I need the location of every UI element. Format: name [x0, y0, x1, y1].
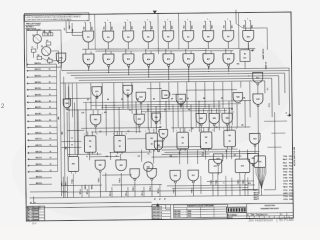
- svg-text:TP1 H: TP1 H: [126, 190, 128, 196]
- IC E73: [235, 159, 250, 173]
- wire: [130, 51, 132, 54]
- svg-text:TELETYPE: TELETYPE: [264, 205, 275, 207]
- wire: [153, 150, 155, 164]
- gate E5 row1: [143, 31, 154, 42]
- wire: [96, 94, 98, 98]
- wire: [190, 51, 192, 54]
- gate E71: [188, 170, 199, 181]
- svg-text:BAC08 L: BAC08 L: [35, 112, 41, 115]
- ladder spine 2: [60, 70, 61, 196]
- svg-text:E25: E25: [179, 99, 182, 101]
- svg-text:P1J: P1J: [289, 159, 292, 161]
- ladder arrow: [27, 120, 29, 122]
- wire: [208, 104, 210, 130]
- svg-text:P7: P7: [228, 66, 230, 68]
- wire: [162, 140, 164, 142]
- svg-text:R2: R2: [89, 141, 91, 143]
- wire: [278, 76, 280, 105]
- bus wire low 1: [62, 190, 254, 192]
- wire drop: [66, 177, 68, 198]
- long top wire: [94, 14, 96, 49]
- wire: [244, 20, 245, 22]
- svg-text:TT02: TT02: [283, 156, 287, 158]
- bus wire 2: [67, 71, 289, 73]
- rev table col: [32, 206, 34, 221]
- gate E7 row1: [183, 31, 194, 42]
- wire: [231, 126, 233, 130]
- wire: [147, 42, 149, 49]
- wire drop: [134, 181, 136, 196]
- svg-text:R2: R2: [181, 137, 183, 139]
- svg-text:P0: P0: [88, 67, 90, 69]
- gate E55: [248, 153, 259, 163]
- svg-text:B61: B61: [212, 25, 214, 28]
- wire: [85, 102, 87, 135]
- ladder arrow: [26, 82, 28, 84]
- wire: [159, 82, 161, 124]
- wire: [89, 21, 90, 23]
- svg-text:B51: B51: [192, 26, 194, 29]
- svg-text:P6: P6: [208, 66, 210, 68]
- svg-text:R3: R3: [46, 40, 48, 42]
- wire: [266, 28, 268, 50]
- svg-text:R2: R2: [118, 140, 120, 142]
- junction: [77, 130, 78, 131]
- gate E52: [154, 141, 163, 150]
- arrow right: [251, 49, 254, 51]
- bus wire 1: [63, 68, 289, 71]
- wire: [81, 126, 161, 129]
- gate E15 row2: [163, 54, 174, 65]
- bus wire 6: [61, 81, 265, 83]
- wire: [184, 128, 186, 132]
- ladder arrow: [27, 171, 29, 173]
- wire: [228, 101, 230, 130]
- bus wire low 2: [30, 195, 293, 198]
- svg-text:SB0: SB0: [58, 117, 60, 120]
- wire: [172, 187, 248, 190]
- bus stub right2: [242, 188, 258, 190]
- wire: [164, 22, 166, 31]
- wire drop: [111, 187, 113, 197]
- wire: [185, 49, 187, 54]
- junction: [198, 101, 199, 102]
- svg-text:G2: G2: [106, 156, 108, 158]
- wire drop: [244, 175, 246, 196]
- gate E46: [152, 113, 161, 122]
- svg-text:TRANSMITTER ASSY: TRANSMITTER ASSY: [260, 207, 279, 210]
- svg-text:E73: E73: [241, 166, 244, 168]
- wire: [224, 21, 226, 31]
- junction: [218, 100, 219, 101]
- wire: [210, 21, 212, 31]
- wire: [189, 20, 190, 22]
- svg-text:BAC03 L: BAC03 L: [35, 81, 41, 84]
- osc out wire: [60, 43, 62, 53]
- resistor R6: [47, 59, 52, 62]
- svg-text:P6J: P6J: [289, 175, 292, 177]
- svg-text:T3: T3: [148, 154, 150, 156]
- transistor Q1: [33, 35, 41, 43]
- wire drop: [72, 174, 74, 198]
- wire: [239, 150, 241, 159]
- gate E44: [209, 113, 220, 123]
- wire: [83, 101, 251, 103]
- wire: [230, 21, 232, 31]
- svg-text:E42: E42: [138, 118, 141, 121]
- flip-flop F6: [224, 130, 236, 147]
- wire: [150, 83, 153, 128]
- wire: [52, 60, 61, 62]
- svg-text:T0: T0: [155, 198, 157, 200]
- wire: [101, 83, 103, 109]
- wire: [95, 98, 97, 109]
- ladder rung 10: [28, 120, 56, 122]
- wire: [62, 184, 102, 186]
- wire: [105, 49, 107, 54]
- notes box: [24, 13, 89, 21]
- gate E14 row2: [143, 54, 154, 65]
- svg-text:E51: E51: [162, 133, 165, 135]
- wire: [226, 126, 228, 130]
- svg-text:E32: E32: [256, 99, 259, 101]
- svg-text:P2J: P2J: [289, 193, 292, 195]
- gate E10 left: [56, 53, 66, 63]
- wire: [244, 61, 246, 68]
- IC E74: [254, 156, 266, 168]
- ladder rung 4: [28, 82, 56, 84]
- junction: [62, 70, 63, 71]
- ladder arrow: [27, 114, 29, 116]
- wire drop: [225, 176, 227, 196]
- ladder spine 3: [64, 77, 65, 198]
- wire: [25, 24, 40, 26]
- flip-flop F2: [114, 135, 126, 152]
- wire: [197, 150, 199, 164]
- svg-text:E22: E22: [126, 90, 129, 92]
- wire: [68, 84, 71, 157]
- wire: [190, 104, 192, 132]
- svg-text:MC306-0-TTY: MC306-0-TTY: [257, 214, 268, 216]
- svg-text:Q1: Q1: [32, 35, 34, 37]
- flip-flop F4: [177, 132, 189, 149]
- gate E12 row2: [103, 54, 114, 65]
- gate E18 row2: [223, 54, 234, 65]
- svg-text:MC3: MC3: [283, 162, 287, 164]
- wire: [230, 147, 232, 159]
- svg-text:Q2: Q2: [159, 126, 161, 128]
- wire: [165, 151, 260, 152]
- svg-text:BAC05 L: BAC05 L: [35, 93, 41, 96]
- wire: [170, 51, 172, 54]
- wire drop: [105, 173, 107, 192]
- svg-text:P3: P3: [148, 66, 150, 68]
- title divider2: [246, 204, 248, 219]
- svg-text:C1: C1: [31, 47, 33, 49]
- gate E4 row1: [123, 31, 134, 42]
- junction: [248, 75, 249, 76]
- svg-text:BAC14 L: BAC14 L: [36, 150, 42, 153]
- svg-text:DEC3009: DEC3009: [174, 213, 180, 215]
- wire: [140, 109, 142, 114]
- svg-text:COMPONENT REF BY MODULE NUMBER: COMPONENT REF BY MODULE NUMBER LISTED IN…: [26, 18, 73, 22]
- ladder arrow: [27, 139, 29, 141]
- bus wire 5: [79, 78, 272, 80]
- svg-text:P2J: P2J: [289, 162, 292, 164]
- svg-text:D4: D4: [137, 98, 139, 101]
- ladder rung 17: [29, 164, 57, 166]
- gate E51: [159, 129, 168, 138]
- junction: [151, 109, 152, 110]
- border frame: [24, 12, 293, 221]
- rev table rows: [27, 208, 44, 210]
- junction: [128, 74, 129, 75]
- rev table header: [27, 206, 40, 209]
- wire drop: [62, 177, 64, 198]
- wire: [128, 66, 130, 75]
- svg-text:BAC07 L: BAC07 L: [35, 106, 41, 109]
- wire: [249, 81, 251, 117]
- svg-text:Q4: Q4: [215, 126, 217, 129]
- wire: [288, 68, 291, 114]
- junction: [165, 101, 166, 102]
- svg-text:E26: E26: [236, 97, 239, 99]
- wire: [155, 125, 157, 130]
- wire: [45, 45, 47, 46]
- wire: [170, 155, 242, 158]
- wire: [125, 49, 127, 54]
- wire: [224, 20, 225, 22]
- wire: [186, 89, 237, 92]
- bus stub right: [207, 180, 254, 183]
- wire: [65, 97, 91, 99]
- ladder rung 18: [29, 171, 57, 173]
- long top wire: [157, 14, 159, 55]
- wire: [247, 43, 249, 50]
- wire: [184, 21, 186, 30]
- wire: [68, 153, 102, 155]
- ladder rung 15: [29, 152, 57, 154]
- wire: [230, 51, 232, 54]
- wire: [168, 66, 170, 79]
- wire: [65, 21, 67, 33]
- wire: [50, 30, 52, 36]
- junction: [108, 72, 109, 73]
- wire: [110, 151, 152, 153]
- wire: [88, 66, 90, 70]
- svg-text:E20: E20: [66, 103, 69, 105]
- gate E17 row2: [203, 54, 214, 65]
- flip-flop F3: [146, 133, 158, 150]
- junction: [148, 77, 149, 78]
- ladder arrow: [27, 101, 29, 103]
- gate E53: [213, 154, 223, 164]
- svg-text:DEC3009: DEC3009: [174, 216, 180, 218]
- bus wire 4: [75, 76, 279, 78]
- IC E72: [209, 159, 222, 173]
- gate E42: [134, 114, 145, 124]
- wire: [169, 21, 170, 23]
- svg-text:D7: D7: [187, 98, 189, 100]
- svg-text:TTO 1: TTO 1: [269, 103, 271, 107]
- td header line2: [173, 208, 227, 211]
- wire: [195, 82, 198, 127]
- svg-text:E43: E43: [200, 117, 203, 120]
- wire: [116, 131, 118, 135]
- wire: [204, 20, 205, 22]
- wire: [226, 126, 228, 132]
- wire: [141, 150, 143, 162]
- wire: [71, 23, 73, 35]
- gate E16 row2: [183, 54, 194, 65]
- svg-text:R6: R6: [48, 58, 50, 60]
- wire: [147, 87, 162, 89]
- svg-text:TB8: TB8: [244, 25, 246, 28]
- wire drop: [200, 176, 202, 194]
- svg-text:BSY2: BSY2: [283, 168, 288, 170]
- svg-text:BAC02 L: BAC02 L: [35, 74, 41, 77]
- component box K1: [240, 50, 250, 62]
- DEC logo letters: [227, 208, 229, 212]
- wire: [264, 189, 275, 191]
- ladder arrow: [27, 127, 29, 129]
- wire: [228, 66, 230, 71]
- svg-text:B81: B81: [252, 25, 254, 28]
- wire: [186, 82, 188, 108]
- svg-text:E31: E31: [256, 77, 259, 79]
- svg-text:BAC04 L: BAC04 L: [35, 87, 41, 90]
- wire: [149, 21, 150, 23]
- title divider: [247, 212, 293, 215]
- wire: [225, 49, 227, 54]
- wire: [131, 83, 133, 114]
- resistor R3: [46, 42, 51, 45]
- wire: [184, 20, 185, 22]
- wire: [172, 104, 174, 132]
- gate E54: [250, 133, 261, 144]
- svg-text:( '50 PLAN: ( '50 PLAN: [276, 218, 294, 222]
- wire: [141, 110, 227, 113]
- svg-text:B01: B01: [92, 27, 94, 30]
- wire: [57, 51, 59, 64]
- wire: [271, 132, 285, 134]
- svg-text:B11: B11: [112, 27, 114, 30]
- wire: [244, 101, 246, 128]
- svg-text:TB1: TB1: [104, 26, 106, 29]
- wire: [155, 107, 157, 133]
- wire: [236, 24, 243, 29]
- resistor R5: [37, 56, 42, 59]
- ladder arrow: [27, 133, 29, 135]
- svg-text:02: 02: [205, 142, 207, 144]
- wire: [162, 148, 238, 151]
- gate E66: [147, 169, 157, 179]
- wire drop: [192, 183, 194, 196]
- ladder arrow: [27, 164, 29, 166]
- gate E9 row1: [223, 31, 234, 42]
- resistor R4: [31, 49, 36, 52]
- svg-text:B02: B02: [69, 26, 71, 29]
- gate E31: [253, 72, 263, 83]
- gate E2 row1: [83, 31, 94, 42]
- wire: [85, 49, 87, 54]
- wire: [204, 21, 206, 31]
- svg-text:WR13: WR13: [283, 193, 288, 195]
- wire: [90, 83, 92, 109]
- wire: [172, 93, 177, 95]
- wire: [71, 83, 73, 117]
- wire: [207, 127, 209, 131]
- svg-text:E72: E72: [214, 166, 217, 168]
- wire drop: [120, 173, 122, 197]
- ladder arrow: [27, 108, 29, 110]
- wire: [247, 42, 249, 49]
- junction: [148, 77, 149, 78]
- wire: [67, 129, 84, 131]
- td table rows: [173, 208, 227, 211]
- long top wire: [177, 13, 179, 49]
- ladder arrow: [27, 158, 29, 160]
- wire: [203, 128, 205, 132]
- wire: [170, 22, 172, 31]
- gate E6 row1: [163, 31, 174, 42]
- svg-text:B21: B21: [132, 26, 134, 29]
- ladder rung 5: [28, 88, 56, 90]
- wire: [89, 152, 91, 160]
- svg-text:ST15: ST15: [283, 199, 287, 201]
- wire: [217, 166, 219, 175]
- wire: [264, 120, 287, 122]
- svg-text:RD11: RD11: [283, 187, 287, 189]
- wire: [213, 126, 215, 132]
- wire: [148, 66, 150, 77]
- svg-text:TT12: TT12: [283, 190, 287, 192]
- DEC logo block: [226, 207, 246, 213]
- wire: [145, 49, 147, 54]
- svg-text:SIG7: SIG7: [283, 175, 287, 177]
- wire: [61, 146, 81, 148]
- oscillator box: [26, 30, 61, 67]
- gate E26: [233, 93, 243, 103]
- wire: [179, 150, 181, 164]
- wire: [105, 105, 107, 135]
- svg-text:B-4: B-4: [32, 221, 37, 225]
- fan node: [261, 187, 262, 188]
- svg-text:TP2: TP2: [237, 64, 240, 66]
- svg-text:E70: E70: [174, 175, 177, 177]
- svg-text:E23: E23: [139, 96, 142, 98]
- wire: [109, 21, 110, 23]
- code row boxes: [247, 215, 293, 218]
- svg-text:P0J: P0J: [289, 187, 292, 189]
- gate E62: [95, 160, 105, 170]
- ladder rung 13: [29, 139, 57, 141]
- svg-text:TB6: TB6: [204, 25, 206, 28]
- svg-text:TB7: TB7: [224, 25, 226, 28]
- wire: [274, 112, 277, 189]
- wire: [44, 30, 46, 36]
- svg-text:TT08: TT08: [283, 178, 287, 180]
- svg-text:T1: T1: [86, 156, 88, 158]
- form row ticks: [248, 216, 250, 218]
- wire: [150, 51, 152, 54]
- wire: [153, 129, 155, 133]
- wire: [182, 101, 184, 132]
- svg-text:P5: P5: [188, 66, 190, 68]
- svg-text:BAC16 L: BAC16 L: [36, 163, 42, 166]
- svg-text:D1: D1: [87, 99, 89, 101]
- gate E70: [170, 170, 181, 181]
